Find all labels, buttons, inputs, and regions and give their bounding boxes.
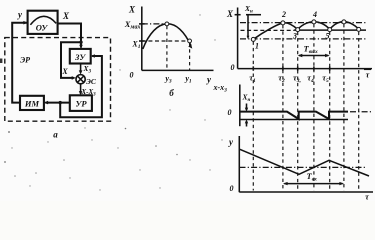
svg-text:0: 0 [130, 71, 134, 80]
parabola symbol inside ОУ [30, 16, 56, 24]
block ЗУ [70, 49, 91, 64]
arrowhead into ЗУ right [91, 54, 95, 58]
block ОУ [28, 11, 58, 34]
axis end thick segment [364, 68, 371, 70]
Xн dimension arrows [246, 104, 248, 127]
svg-text:4: 4 [312, 10, 317, 19]
axis horizontal [239, 191, 373, 193]
axis vertical [238, 136, 240, 192]
marker point end [357, 27, 361, 31]
block ИМ [20, 96, 44, 110]
marker X1 circle [188, 39, 192, 43]
marker point 6 [342, 20, 346, 24]
marker point 5 [328, 28, 332, 32]
dash-dot level peaks [240, 22, 366, 24]
wire УР to ИМ [45, 102, 70, 104]
svg-text:τ: τ [366, 70, 370, 80]
Tвых dimension arrow [299, 55, 328, 57]
Xн pointer line [247, 15, 249, 38]
vertical gridline tau5 [329, 32, 331, 191]
wire ИМ to ОУ (у feedback, left side) [12, 23, 27, 103]
node junction on УР-ИМ wire [59, 101, 62, 104]
node junction X [79, 41, 82, 44]
signal x-x3 [240, 112, 348, 119]
svg-text:X: X [61, 67, 68, 76]
arrowhead into ЗУ [79, 45, 83, 49]
svg-text:ИМ: ИМ [24, 98, 40, 108]
svg-text:τ: τ [365, 192, 369, 202]
svg-text:2: 2 [281, 10, 286, 19]
dash-dot level start [240, 38, 366, 40]
tick X1 [139, 40, 145, 42]
marker point 2 [281, 21, 285, 25]
tick Xmax [139, 23, 145, 25]
scan noise specks [0, 59, 2, 64]
svg-text:ОУ: ОУ [36, 23, 49, 33]
axis у horizontal [142, 69, 214, 71]
arrowhead ЗУ to ЭС [79, 70, 83, 74]
vertical gridline tau1 [252, 42, 254, 191]
svg-text:0: 0 [228, 108, 232, 117]
arrowhead into УР [79, 91, 83, 95]
marker peak circle [165, 22, 169, 26]
wire ЭС to УР [80, 84, 82, 94]
svg-text:X: X [128, 5, 136, 15]
arrowhead Xн pointer [247, 36, 250, 39]
wire ЗУ to ЭС [80, 64, 82, 73]
gridline y1 [189, 43, 191, 71]
vertical gridline tau2 [282, 25, 284, 191]
svg-text:5: 5 [326, 32, 330, 41]
wire X branch to ЭС [61, 42, 81, 78]
arrowhead curve end [188, 45, 192, 49]
axis X vertical [237, 8, 239, 69]
tick on X axis [235, 14, 241, 16]
marker point 1 [251, 37, 255, 41]
arrowhead into ОУ [23, 21, 27, 25]
scan grain [11, 14, 222, 190]
dashed level X1 [142, 40, 188, 42]
vertical gridline 7 [358, 32, 360, 191]
svg-text:1: 1 [255, 42, 259, 51]
dash-dot level Xmax [142, 23, 165, 25]
tau axis ticks [253, 66, 329, 70]
vertical gridline tau4 [313, 24, 315, 191]
Твх dimension arrow [284, 183, 342, 185]
axis vertical [239, 85, 241, 127]
marker point 4 [312, 20, 316, 24]
svg-text:3: 3 [292, 32, 297, 41]
solid level through dips [294, 29, 366, 31]
svg-text:ЗУ: ЗУ [74, 52, 86, 62]
svg-text:б: б [169, 88, 174, 98]
curve parabola [143, 24, 191, 49]
axis tau horizontal [238, 68, 372, 70]
svg-text:X: X [226, 9, 234, 19]
arrowhead into ЭС [72, 76, 76, 80]
svg-text:0: 0 [230, 184, 234, 193]
gridline y3 [166, 26, 168, 71]
dash-dot continuation [350, 111, 373, 113]
signal y(tau) [240, 149, 369, 176]
svg-text:0: 0 [231, 63, 235, 72]
dash-dot mean level [240, 166, 367, 168]
Xн pointer bar [246, 14, 261, 16]
svg-text:УР: УР [75, 99, 87, 109]
comparator ЭС (circle with cross) [76, 75, 85, 84]
svg-text:а: а [53, 130, 58, 140]
svg-text:ЭР: ЭР [20, 56, 30, 65]
dashed box ЭР [5, 38, 111, 122]
axis X vertical [141, 7, 143, 71]
thin level line -Xн [240, 119, 348, 121]
vertical gridline tau3 [297, 32, 299, 191]
wire X from ОУ to ЗУ [58, 24, 81, 48]
search curve X(tau) [253, 22, 358, 40]
svg-text:X: X [62, 11, 70, 21]
dashed level reversal left [241, 29, 295, 31]
svg-text:ЭС: ЭС [86, 77, 97, 86]
arrowhead into ИМ [44, 101, 48, 105]
vertical gridline 6 [343, 24, 345, 191]
block УР [70, 95, 92, 111]
marker point 3 [296, 28, 300, 32]
wire feedback УР to ЗУ [60, 56, 102, 117]
